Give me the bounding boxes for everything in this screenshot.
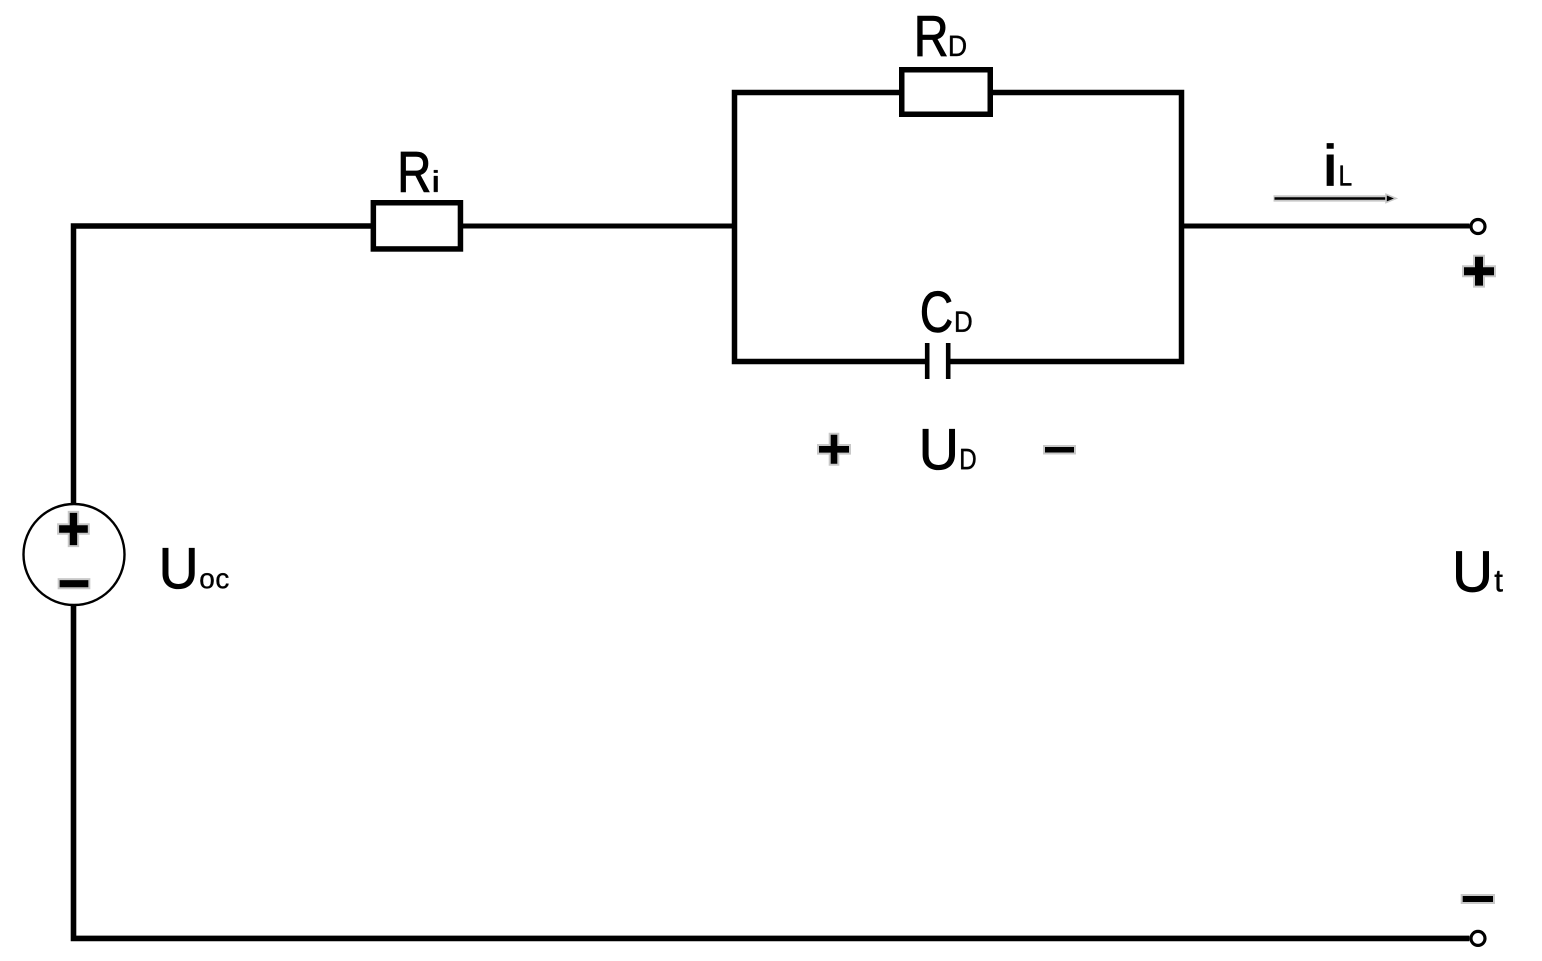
wire: RC block left branch (top-left corner, left side, bottom-left to capacitor plate) — [735, 93, 926, 362]
current label iL — [1327, 143, 1351, 185]
polarity plus of UD — [818, 434, 850, 465]
current arrow iL — [1274, 194, 1397, 202]
voltage source Uoc — [24, 504, 125, 605]
resistor Ri — [373, 203, 460, 249]
label Ri — [401, 152, 437, 192]
resistor RD — [902, 70, 991, 115]
polarity plus at terminal — [1463, 256, 1495, 287]
terminal positive (top right) — [1471, 220, 1485, 234]
label Ut — [1456, 552, 1502, 592]
label RD — [918, 16, 966, 56]
wire: source bottom drop, bottom rail to negative terminal — [74, 605, 1470, 939]
label CD — [922, 291, 971, 332]
polarity minus of UD — [1044, 446, 1075, 454]
wire: RC block right branch (top-right corner, right side, bottom-right to capacitor plate) — [951, 93, 1182, 362]
polarity minus at terminal — [1462, 895, 1494, 903]
label Uoc — [163, 548, 229, 588]
wire: RC block right to positive terminal — [1182, 224, 1470, 229]
wire: top rail left segment and left drop to source top — [74, 226, 372, 505]
terminal negative (bottom right) — [1471, 931, 1485, 945]
wire: resistor Ri right to RC block left — [463, 224, 735, 229]
polarity plus inside source — [58, 512, 89, 546]
capacitor CD plates — [927, 343, 948, 379]
label UD — [923, 429, 976, 469]
polarity minus inside source — [59, 579, 90, 588]
